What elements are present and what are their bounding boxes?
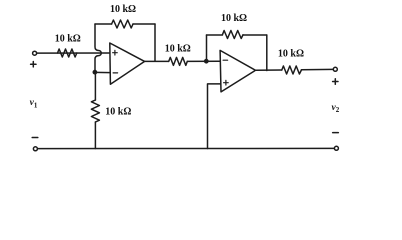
op-amp U2 plus input marker: [224, 80, 229, 85]
op-amp U2 minus input marker: [223, 59, 228, 61]
svg-text:10 kΩ: 10 kΩ: [221, 13, 247, 24]
wire: node down to ground resistor: [94, 72, 96, 100]
op-amp U1 plus input marker: [113, 50, 118, 55]
resistor R6 10k output: [282, 66, 302, 74]
wire: U2 feedback top: [207, 34, 267, 36]
svg-text:10 kΩ: 10 kΩ: [55, 34, 81, 45]
resistor R3 10k to ground (vertical): [91, 100, 99, 122]
resistor R5 10k feedback U2: [222, 31, 243, 39]
wire: U2 feedback left vertical: [206, 35, 208, 61]
wire: U1 feedback left vertical with hop over input wire: [95, 24, 101, 72]
wire: ground resistor to bottom rail: [94, 122, 96, 149]
terminal: input top-left: [33, 51, 37, 55]
wire: input to op-amp U1 noninverting: [37, 52, 110, 54]
svg-text:10 kΩ: 10 kΩ: [105, 107, 131, 118]
terminal: bottom-right: [334, 146, 338, 150]
wire: bottom rail: [37, 147, 334, 149]
svg-text:v1: v1: [30, 98, 38, 109]
plus sign: input polarity: [31, 62, 36, 67]
node: U2 inverting junction: [204, 59, 209, 64]
plus sign: output polarity: [333, 79, 338, 84]
minus sign: input polarity: [32, 137, 38, 139]
svg-text:10 kΩ: 10 kΩ: [110, 4, 136, 15]
wire: U1 feedback right vertical to output: [154, 24, 156, 61]
op-amp U1: [110, 43, 145, 84]
terminal: output top-right: [333, 67, 337, 71]
op-amp U2: [220, 50, 255, 92]
node: U1 inverting junction: [93, 70, 98, 75]
wire: U1 output to R4: [145, 60, 169, 62]
resistor R2 10k feedback U1: [112, 20, 133, 28]
wire: node to U1 inverting input: [95, 71, 110, 73]
op-amp U1 minus input marker: [113, 72, 118, 74]
terminal: bottom-left: [33, 147, 37, 151]
minus sign: output polarity: [333, 132, 339, 134]
wire: U2 output to R6: [256, 69, 282, 71]
resistor R4 10k interstage: [169, 57, 188, 65]
wire: U2 feedback right vertical to output: [266, 35, 268, 71]
wire: U1 feedback top: [95, 23, 155, 25]
wire: R6 to output terminal: [301, 68, 333, 70]
wire: R4 to U2 inverting input: [187, 60, 220, 62]
svg-text:10 kΩ: 10 kΩ: [278, 49, 304, 60]
svg-text:10 kΩ: 10 kΩ: [165, 44, 191, 55]
resistor R1 10k input: [58, 49, 77, 57]
svg-text:v2: v2: [332, 103, 340, 114]
wire: U2 noninverting input to ground rail: [208, 84, 221, 149]
